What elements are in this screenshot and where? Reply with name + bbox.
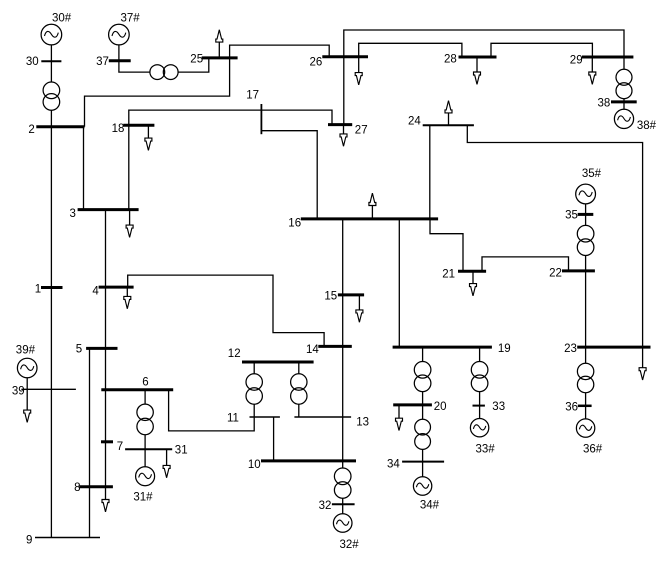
svg-text:33#: 33# <box>476 444 496 456</box>
svg-text:35: 35 <box>565 210 578 222</box>
generator 32# <box>333 514 352 533</box>
svg-text:30: 30 <box>26 56 39 68</box>
svg-text:1: 1 <box>35 283 41 295</box>
bus 37 <box>109 59 131 62</box>
svg-text:13: 13 <box>356 416 369 428</box>
svg-text:32#: 32# <box>340 539 360 551</box>
generator 38# <box>614 109 633 128</box>
bus 15 <box>338 293 364 296</box>
bus 31 <box>125 448 172 450</box>
line 16-17 <box>261 131 317 219</box>
bus 21 <box>458 270 486 273</box>
wire gen39-bus39 <box>26 378 28 390</box>
svg-text:36#: 36# <box>583 444 603 456</box>
bus 5 <box>86 347 117 350</box>
generator 35# <box>576 184 596 204</box>
line 2-25 <box>85 58 230 127</box>
svg-text:38#: 38# <box>637 120 657 132</box>
transformer T19-33 <box>471 362 488 392</box>
transformer T6-31 <box>137 404 153 435</box>
bus 38 <box>611 100 637 103</box>
svg-text:15: 15 <box>324 291 337 303</box>
wire bus31-gen31 <box>144 449 146 467</box>
wire bus6-T31 <box>144 390 146 404</box>
svg-text:39#: 39# <box>16 345 36 357</box>
svg-text:33: 33 <box>492 401 505 413</box>
line 21-22 <box>482 257 569 271</box>
line 25-26 <box>230 45 330 58</box>
svg-text:30#: 30# <box>52 13 72 25</box>
transformer T20-34 <box>415 419 431 449</box>
bus 28 <box>459 56 497 59</box>
bus 20 <box>393 403 432 406</box>
svg-text:37#: 37# <box>121 13 141 25</box>
transformer T19-20 <box>414 362 431 392</box>
bus 1 <box>41 286 63 289</box>
wire bus12-T13 <box>298 362 300 374</box>
line 3-4-5-6-7-8 <box>105 210 107 487</box>
generator 36# <box>576 419 594 437</box>
svg-text:37: 37 <box>96 56 109 68</box>
wire gen37-bus37 <box>118 45 120 61</box>
line 3-18 <box>128 125 130 209</box>
svg-text:34: 34 <box>387 459 400 471</box>
generator 31# <box>136 467 155 486</box>
svg-text:14: 14 <box>306 344 319 356</box>
wire bus30-T30 <box>50 61 52 82</box>
svg-text:27: 27 <box>355 124 368 136</box>
svg-text:35#: 35# <box>582 168 602 180</box>
bus 36 <box>578 405 592 408</box>
bus 9 <box>35 537 100 539</box>
wire bus38-gen38 <box>623 102 625 110</box>
line 17-27 <box>261 110 332 125</box>
wire bus32-gen32 <box>342 504 344 514</box>
svg-text:20: 20 <box>434 401 447 413</box>
line 26-28 <box>359 43 462 57</box>
wire bus23-T36 <box>585 347 587 363</box>
load arrow bus39 <box>24 389 31 422</box>
line 10-11 <box>273 417 275 461</box>
svg-text:31#: 31# <box>133 492 153 504</box>
generator 37# <box>109 24 130 45</box>
generator 34# <box>413 477 431 495</box>
transformer T12-11 <box>246 374 262 404</box>
bus 14 <box>318 345 352 348</box>
wire bus36-gen36 <box>585 406 587 419</box>
wire T30-bus2 <box>50 110 52 127</box>
bus 35 <box>578 213 594 216</box>
transformer T29-38 <box>616 69 632 98</box>
bus 30 <box>41 60 61 62</box>
wire bus19-T20 <box>422 347 424 361</box>
svg-text:34#: 34# <box>420 500 440 512</box>
svg-text:38: 38 <box>598 98 611 110</box>
bus 4 <box>99 286 134 289</box>
svg-text:32: 32 <box>319 500 332 512</box>
bus 39 <box>21 388 76 390</box>
wire T13-bus13 <box>298 404 300 417</box>
wire bus12-T11 <box>253 362 255 374</box>
svg-text:21: 21 <box>442 268 455 280</box>
arrow up bus25 <box>216 30 223 58</box>
svg-text:17: 17 <box>246 89 259 101</box>
wire bus33-gen33 <box>479 406 481 419</box>
wire bus20-T34 <box>422 405 424 419</box>
wire bus35-T35 <box>585 214 587 225</box>
bus 18 <box>123 124 154 127</box>
bus 19 <box>393 346 492 349</box>
generator 39# <box>17 358 37 378</box>
wire T36-bus36 <box>585 393 587 406</box>
wire T38-bus38 <box>623 99 625 102</box>
wire gen35-bus35 <box>585 204 587 215</box>
load arrow bus27 <box>340 125 347 147</box>
wire gen30-bus30 <box>50 45 52 61</box>
wire T37-bus25 <box>178 58 209 72</box>
bus 6 <box>101 388 173 391</box>
line 23-24 <box>467 125 642 347</box>
bus 11 <box>250 416 280 418</box>
svg-text:19: 19 <box>498 343 511 355</box>
line 2-3 <box>83 127 85 210</box>
line 16-24 <box>429 125 431 219</box>
load arrow bus29 <box>589 57 596 84</box>
svg-text:18: 18 <box>112 123 125 135</box>
bus 25 <box>202 56 238 59</box>
transformer T12-13 <box>291 374 307 404</box>
wire T31-bus31 <box>144 435 146 450</box>
svg-text:12: 12 <box>228 348 241 360</box>
bus 24 <box>423 124 474 126</box>
generator 30# <box>41 24 62 45</box>
wire bus29-T38 <box>623 57 625 70</box>
svg-text:36: 36 <box>565 401 578 413</box>
line 1-9 vertical <box>50 127 52 538</box>
wire T20-bus20 <box>422 392 424 405</box>
bus 29 <box>582 56 633 59</box>
svg-text:22: 22 <box>549 267 562 279</box>
line 4-14 <box>128 275 324 346</box>
svg-text:2: 2 <box>28 124 34 136</box>
svg-text:9: 9 <box>26 535 32 547</box>
bus 33 <box>473 405 485 407</box>
line 16-19 <box>398 219 400 347</box>
bus 26 <box>322 55 368 58</box>
load arrow bus18 <box>145 125 152 150</box>
line 16-21 <box>430 219 463 271</box>
arrow up bus16 <box>369 193 376 219</box>
svg-text:39: 39 <box>12 386 25 398</box>
wire bus34-gen34 <box>422 462 424 477</box>
load arrow bus28 <box>474 57 481 84</box>
load arrow bus8 <box>102 487 109 512</box>
bus 2 <box>36 125 84 128</box>
line 16-15-14-13-10 <box>342 219 344 461</box>
load arrow bus21 <box>470 271 477 296</box>
svg-text:26: 26 <box>310 57 323 69</box>
bus 34 <box>402 461 444 463</box>
wire T33-bus33 <box>479 392 481 406</box>
load arrow bus23 <box>639 347 646 380</box>
wire T32-bus32 <box>342 498 344 504</box>
bus 27 <box>328 123 352 126</box>
bus 22 <box>562 269 595 272</box>
svg-text:8: 8 <box>74 482 80 494</box>
svg-text:25: 25 <box>190 53 203 65</box>
svg-text:7: 7 <box>117 441 123 453</box>
bus 3 <box>78 208 139 211</box>
bus 16 <box>301 217 438 220</box>
line 5-8-9 <box>89 348 91 537</box>
svg-text:5: 5 <box>76 344 82 356</box>
svg-text:24: 24 <box>408 116 421 128</box>
line 17-18 <box>129 110 262 125</box>
svg-text:3: 3 <box>70 208 76 220</box>
line 26-29 <box>344 30 624 57</box>
wire bus19-T33 <box>479 347 481 361</box>
transformer T22-35 <box>577 225 594 255</box>
wire T34-bus34 <box>422 449 424 461</box>
svg-text:31: 31 <box>175 445 188 457</box>
transformer T10-32 <box>334 468 351 498</box>
wire T11-bus11 <box>253 404 255 417</box>
line 6-11 <box>169 390 255 431</box>
bus 7 <box>101 440 113 443</box>
load arrow bus15 <box>356 295 363 322</box>
line 26-27 <box>343 57 345 125</box>
load arrow bus3 <box>126 210 133 238</box>
svg-text:16: 16 <box>288 218 301 230</box>
svg-text:28: 28 <box>444 53 457 65</box>
line 22-23 <box>585 271 587 347</box>
line 28-29 <box>491 43 592 57</box>
load arrow bus4 <box>124 287 131 309</box>
transformer T2-30 <box>43 82 60 110</box>
wire bus10-T32 <box>342 461 344 468</box>
svg-text:4: 4 <box>92 285 99 297</box>
transformer T25-37 <box>150 65 178 80</box>
svg-text:11: 11 <box>227 412 239 424</box>
bus 32 <box>332 503 355 505</box>
svg-text:6: 6 <box>142 377 148 389</box>
bus 12 <box>242 361 314 364</box>
bus 13 <box>294 416 351 418</box>
svg-text:29: 29 <box>570 55 583 67</box>
transformer T23-36 <box>577 363 593 393</box>
load arrow bus20 <box>396 405 403 431</box>
bus 23 <box>577 346 650 349</box>
svg-text:23: 23 <box>564 343 577 355</box>
bus 8 <box>79 485 113 488</box>
wire T35-bus22 <box>585 256 587 271</box>
wire bus37-T37 <box>119 61 150 72</box>
arrow up bus24 <box>445 101 452 126</box>
load arrow bus26 <box>355 57 362 85</box>
bus 10 <box>261 459 356 462</box>
generator 33# <box>470 419 488 437</box>
svg-text:10: 10 <box>248 459 261 471</box>
load arrow bus31 <box>163 449 170 477</box>
bus 17 <box>260 104 262 134</box>
